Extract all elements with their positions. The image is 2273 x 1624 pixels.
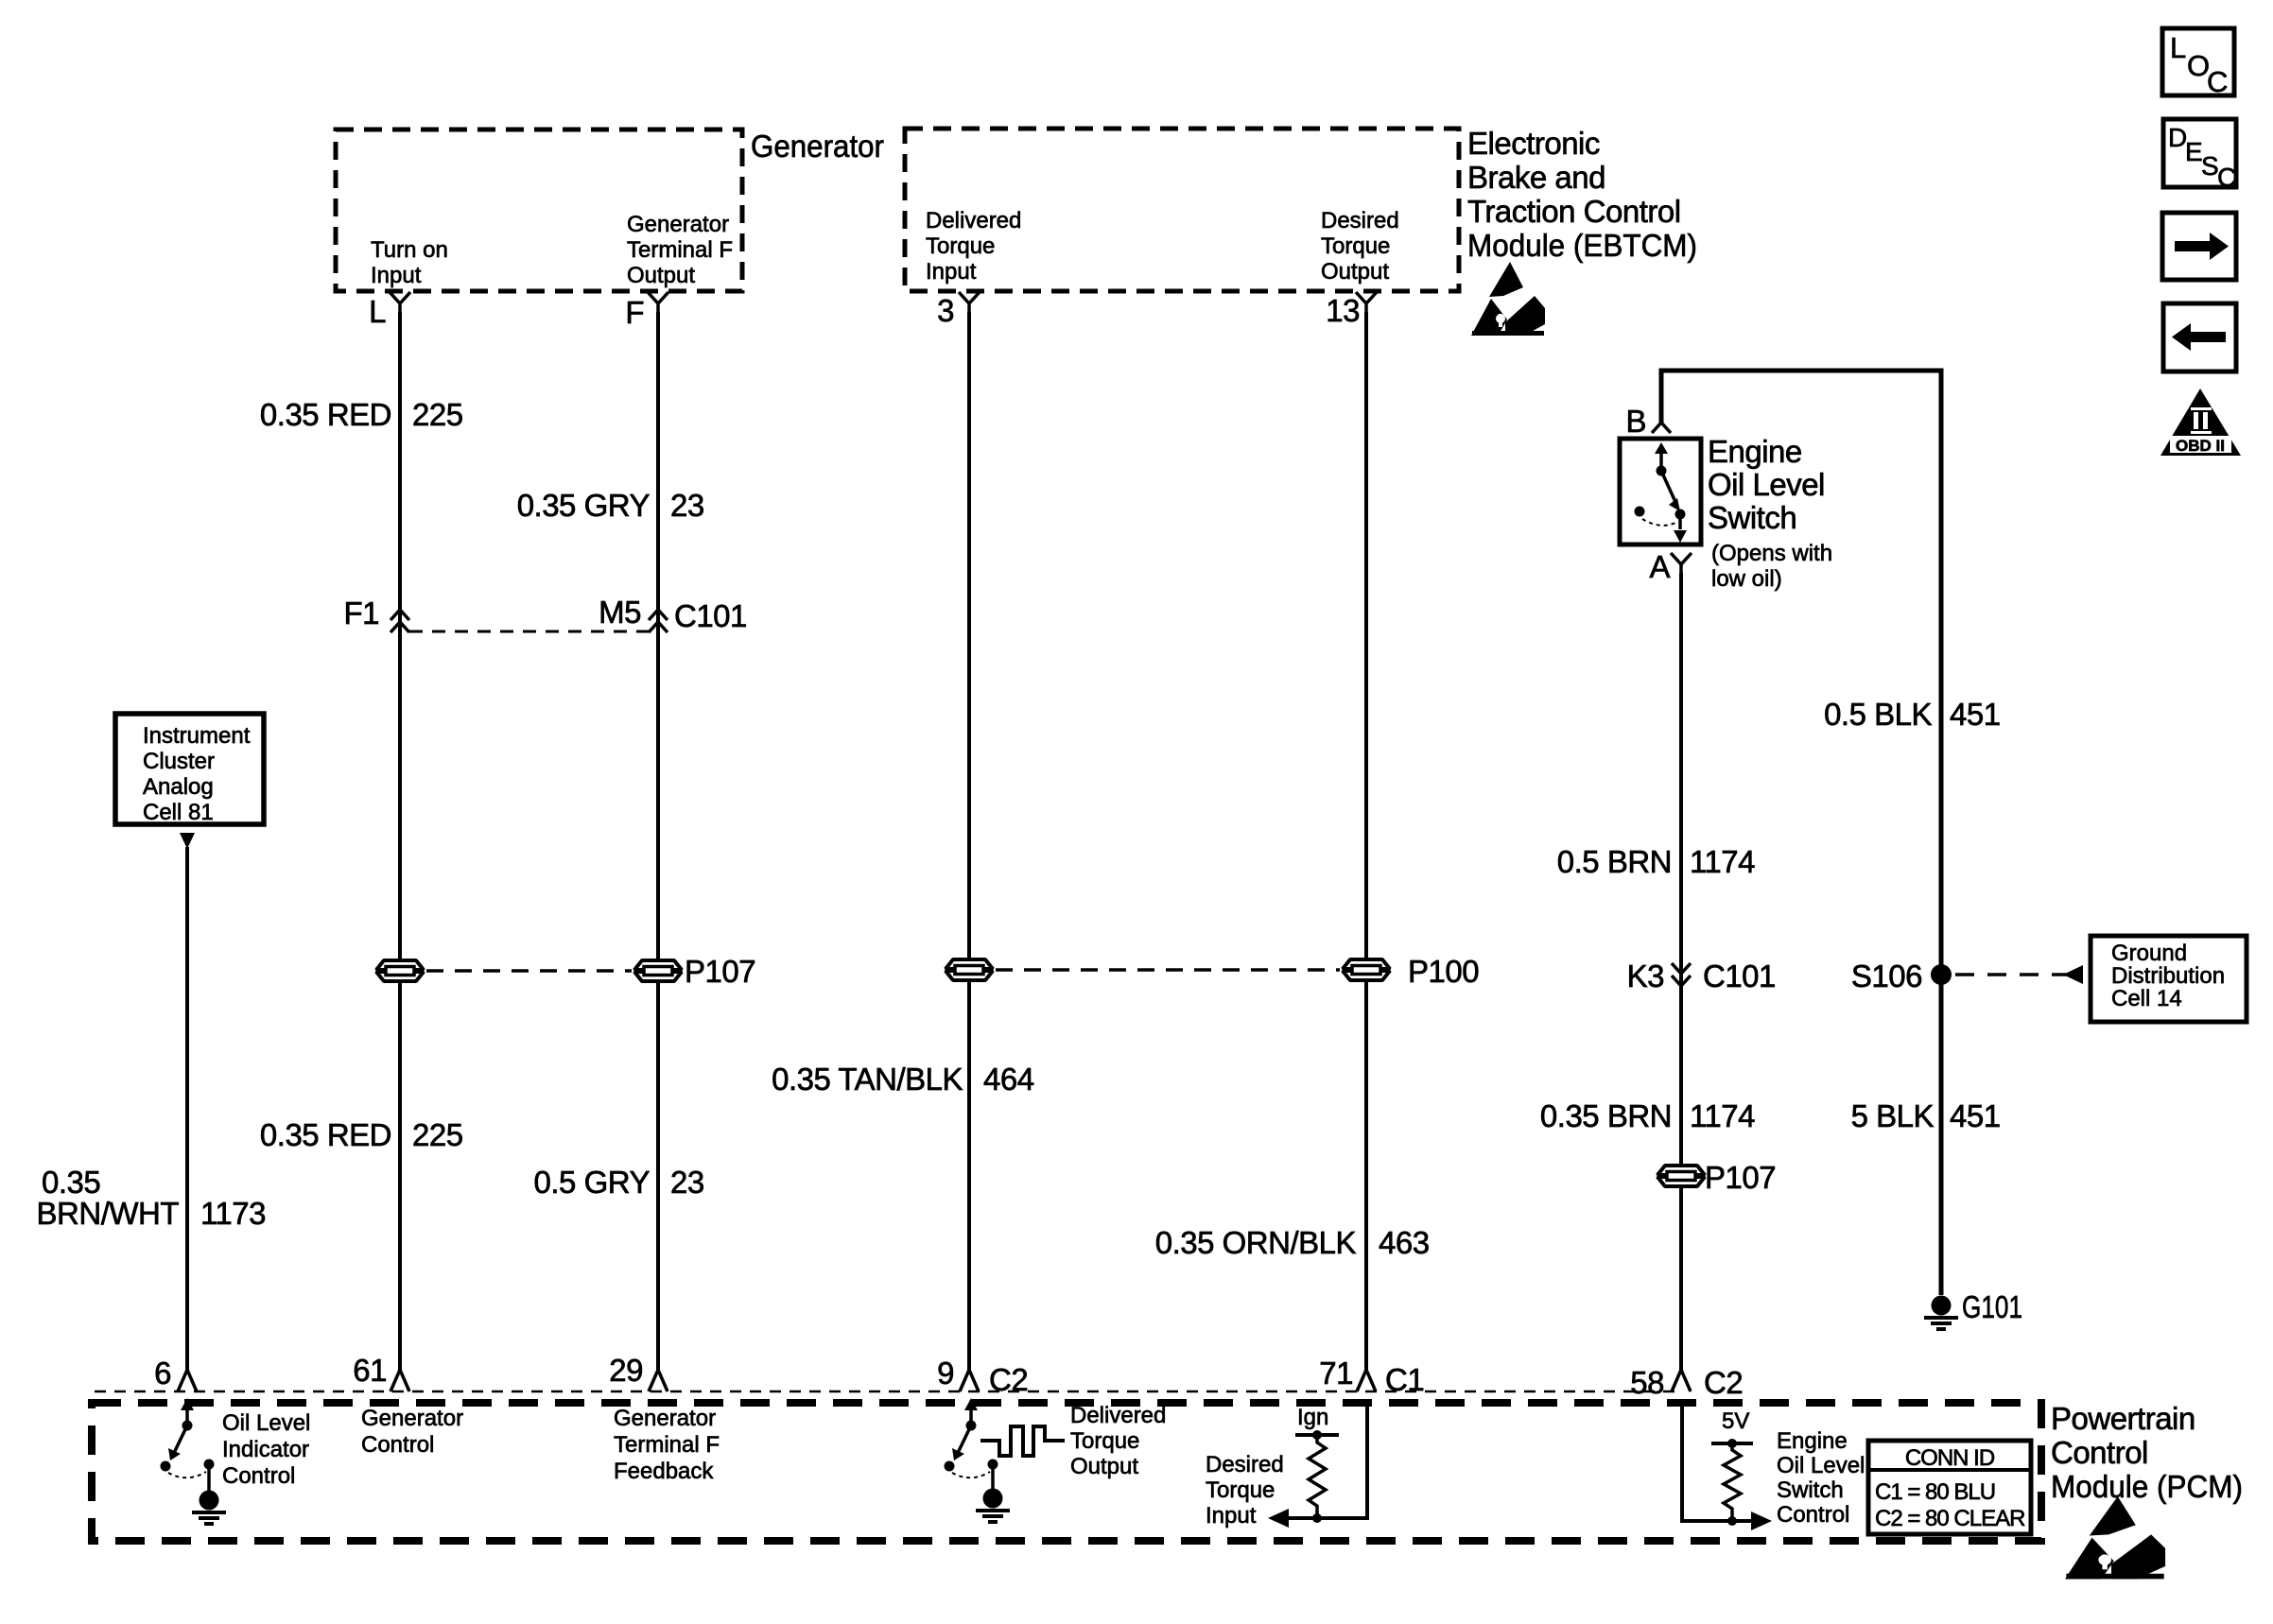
- wire pin 58 to arrow: [1682, 1407, 1751, 1521]
- svg-text:3: 3: [937, 293, 954, 328]
- generator module box: [336, 130, 742, 291]
- svg-text:Desired: Desired: [1206, 1452, 1284, 1477]
- svg-text:0.35 TAN/BLK: 0.35 TAN/BLK: [772, 1062, 963, 1097]
- svg-text:OBD II: OBD II: [2176, 437, 2225, 455]
- wire 3 to pin 9: [967, 312, 971, 1370]
- inline connector on wire 3 (P100 row): [946, 959, 993, 980]
- svg-text:451: 451: [1950, 1098, 2001, 1133]
- svg-text:451: 451: [1950, 697, 2001, 732]
- svg-text:23: 23: [670, 1165, 704, 1200]
- svg-text:0.5 BRN: 0.5 BRN: [1557, 844, 1672, 879]
- engine oil level switch wire B horizontal: [1661, 371, 1941, 1295]
- svg-text:Ign: Ign: [1297, 1405, 1328, 1430]
- svg-text:Engine: Engine: [1777, 1428, 1848, 1454]
- ESD symbol PCM: [2065, 1496, 2165, 1579]
- svg-text:C1 = 80 BLU: C1 = 80 BLU: [1875, 1479, 1995, 1505]
- svg-text:L: L: [369, 294, 386, 329]
- svg-text:Brake and: Brake and: [1467, 160, 1605, 195]
- svg-text:P107: P107: [1705, 1160, 1776, 1195]
- svg-text:61: 61: [353, 1353, 387, 1388]
- dashed link F1 to M5: [409, 631, 649, 633]
- svg-text:463: 463: [1379, 1225, 1430, 1260]
- svg-text:Torque: Torque: [926, 233, 995, 259]
- CONN ID table: [1868, 1441, 2031, 1534]
- svg-text:5 BLK: 5 BLK: [1851, 1098, 1935, 1133]
- svg-text:P107: P107: [685, 954, 755, 989]
- svg-text:Control: Control: [2051, 1435, 2148, 1470]
- svg-text:Terminal F: Terminal F: [627, 237, 733, 263]
- svg-text:Delivered: Delivered: [926, 208, 1021, 233]
- wire 13 to pin 71: [1364, 312, 1368, 1370]
- svg-text:Oil Level: Oil Level: [222, 1410, 310, 1436]
- svg-text:Output: Output: [1070, 1454, 1138, 1479]
- svg-text:C: C: [2217, 163, 2236, 192]
- svg-text:Cluster: Cluster: [143, 749, 215, 774]
- svg-text:E: E: [2185, 137, 2203, 166]
- svg-text:29: 29: [609, 1353, 643, 1388]
- svg-text:L: L: [2170, 31, 2186, 64]
- right arrow icon: [2162, 213, 2236, 280]
- svg-text:0.35 ORN/BLK: 0.35 ORN/BLK: [1155, 1225, 1357, 1260]
- svg-text:Torque: Torque: [1070, 1428, 1139, 1454]
- svg-text:23: 23: [670, 488, 704, 523]
- wire A to pin 58: [1679, 573, 1683, 1370]
- svg-text:1174: 1174: [1690, 1098, 1755, 1133]
- svg-text:C: C: [2207, 65, 2228, 98]
- svg-text:0.35 GRY: 0.35 GRY: [517, 488, 651, 523]
- svg-text:0.35 BRN: 0.35 BRN: [1540, 1098, 1672, 1133]
- wire L to pin 61: [398, 312, 402, 1370]
- svg-text:M5: M5: [599, 595, 641, 630]
- svg-text:P100: P100: [1408, 954, 1479, 989]
- svg-text:F1: F1: [343, 596, 379, 631]
- dashed link P107: [426, 969, 632, 973]
- svg-text:Input: Input: [1206, 1503, 1257, 1529]
- DESC icon: [2163, 119, 2236, 187]
- svg-text:Delivered: Delivered: [1070, 1403, 1166, 1428]
- svg-text:0.35: 0.35: [42, 1165, 100, 1200]
- svg-text:Distribution: Distribution: [2111, 963, 2225, 989]
- wire instrument cluster to pin 6: [185, 847, 189, 1370]
- square wave symbol: [980, 1426, 1065, 1456]
- wire F to pin 29: [656, 312, 660, 1370]
- svg-text:G101: G101: [1962, 1289, 2022, 1324]
- svg-text:5V: 5V: [1722, 1408, 1749, 1434]
- svg-text:BRN/WHT: BRN/WHT: [37, 1196, 180, 1231]
- svg-text:Generator: Generator: [751, 129, 884, 164]
- svg-text:K3: K3: [1627, 959, 1664, 993]
- svg-text:Generator: Generator: [361, 1406, 463, 1431]
- svg-text:1173: 1173: [200, 1196, 266, 1231]
- delivered torque output switch: [945, 1398, 1011, 1522]
- svg-text:Module (EBTCM): Module (EBTCM): [1467, 228, 1697, 263]
- inline connector P107 on switch wire: [1657, 1166, 1705, 1186]
- svg-text:B: B: [1625, 404, 1646, 439]
- inline connector on wire 13 P100: [1343, 959, 1390, 980]
- svg-text:0.35 RED: 0.35 RED: [260, 397, 391, 432]
- svg-text:Switch: Switch: [1708, 500, 1796, 535]
- svg-text:0.35 RED: 0.35 RED: [260, 1117, 391, 1152]
- ground distribution box: [2091, 936, 2247, 1022]
- dashed link P100: [996, 968, 1340, 972]
- svg-text:(Opens with: (Opens with: [1711, 541, 1832, 566]
- svg-text:Generator: Generator: [614, 1406, 716, 1431]
- svg-text:Torque: Torque: [1321, 233, 1390, 259]
- ESD symbol EBTCM: [1471, 262, 1545, 336]
- inline connector on wire L (P107 row): [376, 960, 424, 981]
- svg-text:Analog: Analog: [143, 774, 214, 800]
- svg-text:Control: Control: [1777, 1502, 1849, 1528]
- svg-text:225: 225: [412, 1117, 463, 1152]
- switch internals: [1659, 452, 1663, 471]
- PCM connector C2 thin dashed line: [95, 1391, 1682, 1393]
- svg-text:Indicator: Indicator: [222, 1437, 309, 1462]
- svg-text:Control: Control: [361, 1432, 434, 1458]
- ign resistor: [1295, 1433, 1339, 1437]
- svg-text:Engine: Engine: [1708, 434, 1802, 469]
- 5V resistor: [1711, 1442, 1753, 1445]
- svg-text:Control: Control: [222, 1463, 295, 1489]
- svg-text:S106: S106: [1851, 959, 1922, 993]
- svg-text:Terminal F: Terminal F: [614, 1432, 720, 1458]
- svg-text:Cell 14: Cell 14: [2111, 986, 2182, 1011]
- svg-text:Input: Input: [926, 259, 977, 285]
- svg-text:F: F: [625, 295, 644, 330]
- arrow below instrument cluster: [180, 833, 195, 849]
- EBTCM module box: [905, 129, 1459, 291]
- svg-text:C2 = 80 CLEAR: C2 = 80 CLEAR: [1875, 1506, 2025, 1531]
- svg-text:CONN ID: CONN ID: [1905, 1445, 1995, 1471]
- instrument cluster box: [115, 714, 264, 824]
- svg-text:464: 464: [983, 1062, 1034, 1097]
- OBD II icon: [2160, 389, 2241, 456]
- svg-text:Input: Input: [371, 263, 422, 288]
- inline connector on wire F P107: [634, 960, 682, 981]
- svg-text:1174: 1174: [1690, 844, 1755, 879]
- svg-text:Instrument: Instrument: [143, 723, 251, 749]
- svg-text:Output: Output: [627, 263, 695, 288]
- oil level indicator control switch: [161, 1398, 227, 1524]
- svg-text:Ground: Ground: [2111, 941, 2187, 966]
- dashed reference to ground distribution: [1955, 973, 2067, 976]
- svg-text:Torque: Torque: [1206, 1477, 1275, 1503]
- PCM module box: [92, 1403, 2041, 1541]
- svg-text:Switch: Switch: [1777, 1477, 1844, 1503]
- svg-text:Output: Output: [1321, 259, 1389, 285]
- svg-text:Powertrain: Powertrain: [2051, 1401, 2195, 1436]
- svg-text:C101: C101: [1703, 959, 1776, 993]
- svg-text:Oil Level: Oil Level: [1777, 1453, 1865, 1478]
- svg-text:0.5 BLK: 0.5 BLK: [1824, 697, 1932, 732]
- svg-text:Cell 81: Cell 81: [143, 800, 214, 825]
- svg-text:Module (PCM): Module (PCM): [2051, 1469, 2243, 1504]
- svg-text:6: 6: [154, 1356, 171, 1391]
- svg-text:Traction Control: Traction Control: [1467, 194, 1681, 229]
- svg-text:C101: C101: [674, 598, 747, 633]
- svg-text:Electronic: Electronic: [1467, 126, 1600, 161]
- svg-text:C2: C2: [989, 1362, 1028, 1397]
- svg-text:Generator: Generator: [627, 212, 729, 237]
- engine oil level switch box: [1620, 439, 1701, 544]
- svg-text:225: 225: [412, 397, 463, 432]
- svg-text:Turn on: Turn on: [371, 237, 448, 263]
- svg-text:0.5 GRY: 0.5 GRY: [534, 1165, 651, 1200]
- left arrow icon: [2163, 303, 2236, 371]
- svg-text:71: 71: [1319, 1356, 1353, 1391]
- svg-text:A: A: [1649, 549, 1670, 584]
- svg-text:13: 13: [1326, 293, 1360, 328]
- svg-text:C2: C2: [1704, 1365, 1743, 1400]
- wire pin 71 to resistor arrow: [1289, 1407, 1367, 1518]
- LOC icon: [2162, 28, 2234, 95]
- svg-text:9: 9: [937, 1356, 954, 1391]
- svg-text:Desired: Desired: [1321, 208, 1399, 233]
- svg-text:58: 58: [1630, 1365, 1664, 1400]
- svg-text:C1: C1: [1385, 1362, 1424, 1397]
- svg-text:Feedback: Feedback: [614, 1459, 714, 1484]
- svg-text:Oil Level: Oil Level: [1708, 467, 1825, 502]
- svg-text:low oil): low oil): [1711, 566, 1782, 592]
- ground G101: [1924, 1296, 1958, 1330]
- svg-text:S: S: [2201, 151, 2219, 181]
